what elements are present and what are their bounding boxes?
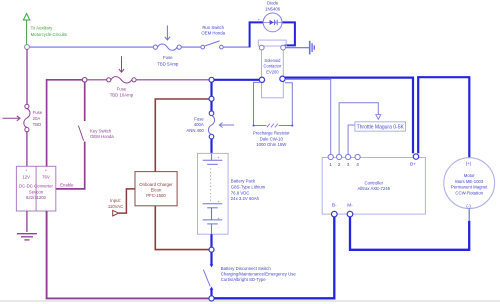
- switch: Run Switch OEM Honda: [201, 41, 223, 49]
- svg-text:TBD 5Amp: TBD 5Amp: [157, 61, 179, 66]
- label: DC-DC Converter Sevcon 622/11202: [19, 174, 53, 200]
- label: Diode 1N5406: [265, 0, 281, 11]
- wire: M- to motor (thick): [350, 217, 469, 250]
- svg-text:B+: B+: [410, 162, 416, 167]
- battery ellipsis dots: [210, 168, 211, 200]
- svg-text:76V: 76V: [42, 174, 50, 179]
- terminal: B+: [413, 154, 418, 159]
- wire: charger negative output: [155, 206, 209, 250]
- node dots: precharge corners: [253, 125, 294, 127]
- wire: coil return to chassis ground: [286, 47, 309, 49]
- svg-text:622/11202: 622/11202: [26, 195, 47, 200]
- switch: Key Switch OEM Honda: [56, 82, 85, 189]
- wire: positive bus contactor to B+ (thick): [285, 78, 413, 154]
- svg-text:400A: 400A: [194, 122, 204, 127]
- wire: charger node to 400A fuse: [210, 101, 212, 111]
- label: Battery Pack G8S-Type Lithium 76.8 VDC 24x 3.2V 60Ah: [231, 178, 266, 201]
- svg-text:M-: M-: [347, 202, 353, 207]
- svg-text:Permanent Magnet: Permanent Magnet: [451, 185, 488, 190]
- svg-text:Fuse: Fuse: [117, 86, 127, 91]
- svg-text:2: 2: [338, 162, 341, 167]
- label: Key Switch OEM Honda: [90, 128, 114, 139]
- label: Motor Mars ME-1003 Permanent Magnet CCW-Rotation: [451, 161, 488, 208]
- wire: controller pin 1 sense: [286, 79, 331, 154]
- svg-text:Dale CW-10: Dale CW-10: [260, 136, 284, 141]
- wire: positive bus to contactor (thick): [214, 79, 259, 81]
- svg-text:ANN 400: ANN 400: [186, 128, 204, 133]
- battery cell 3: [203, 220, 223, 224]
- svg-text:Sevcon: Sevcon: [29, 189, 44, 194]
- svg-text:76.8 VDC: 76.8 VDC: [231, 190, 250, 195]
- wire: 5A fuse to run switch: [181, 46, 201, 48]
- label: Battery Disconnect Switch Charging/Maintenance/Emergency Use Curtis/Albright SD-Type: [221, 266, 297, 282]
- label: Solenoid Contactor EV200: [264, 58, 282, 75]
- wire: controller pin 3 to throttle: [348, 125, 355, 154]
- svg-text:Key Switch: Key Switch: [90, 128, 112, 133]
- label: B- and M-: [332, 202, 353, 207]
- label: Controller Alltrax AXE-7245: [358, 180, 391, 191]
- pointer arrow to 5A fuse: [165, 26, 170, 41]
- fuse F3 TBD 10Amp: [107, 77, 136, 83]
- label: Fuse 20A TBD: [33, 110, 43, 127]
- svg-text:+: +: [218, 156, 220, 160]
- diode D1 1N5406: [263, 13, 282, 32]
- svg-text:OEM Honda: OEM Honda: [90, 134, 114, 139]
- svg-text:Fuse: Fuse: [194, 116, 204, 121]
- svg-text:Motor: Motor: [464, 173, 476, 178]
- svg-text:Fuse: Fuse: [163, 55, 173, 60]
- svg-text:(-): (-): [466, 203, 471, 208]
- terminal: M-: [347, 211, 353, 217]
- wire: precharge resistor right leg: [279, 83, 293, 126]
- label: Onboard Charger Elcon PFC-1500: [139, 182, 173, 198]
- svg-text:Input:: Input:: [110, 198, 121, 203]
- label: battery polarity marks: [218, 156, 221, 230]
- node: 12V distribution junction: [25, 45, 30, 50]
- svg-text:+: +: [45, 169, 47, 173]
- fuse F1 TBD 5Amp: [153, 44, 181, 50]
- wire: 10A fuse to battery positive node: [136, 79, 209, 81]
- battery cell 1: [203, 160, 223, 164]
- wire: diode cathode leg (thick): [282, 22, 295, 45]
- svg-text:1000 Ohm 15W: 1000 Ohm 15W: [256, 142, 287, 147]
- wire: DC-DC 12V negative to ground: [26, 211, 28, 232]
- label: Run Switch OEM Honda: [201, 25, 225, 36]
- ground: coil return: [310, 41, 315, 55]
- svg-text:Onboard Charger: Onboard Charger: [139, 182, 173, 187]
- wire: key circuit from 12V node down: [26, 49, 28, 104]
- label: Input 110VAC: [108, 198, 123, 209]
- label: pin numbers 1 2 3 4: [329, 162, 359, 167]
- svg-text:3: 3: [347, 162, 350, 167]
- battery BT1 pack: [198, 153, 229, 234]
- wire: 76V feed to DC-DC input: [47, 80, 83, 167]
- svg-text:TBD: TBD: [33, 122, 42, 127]
- svg-text:110VAC: 110VAC: [108, 204, 123, 209]
- wire: 12V feed to 5A fuse: [29, 46, 153, 48]
- wire: AC input to charger: [119, 189, 135, 213]
- svg-text:Controller: Controller: [364, 180, 383, 185]
- svg-text:12V: 12V: [22, 174, 30, 179]
- svg-text:Precharge Resistor: Precharge Resistor: [253, 130, 290, 135]
- wire: cell 2 to cell 3: [211, 208, 213, 220]
- label: Fuse 400A ANN 400: [186, 116, 204, 133]
- svg-text:1N5406: 1N5406: [265, 7, 281, 12]
- terminal: B-: [332, 211, 338, 217]
- label: Precharge Resistor Dale CW-10 1000 Ohm 15W: [253, 130, 290, 147]
- label: Fuse TBD 10Amp: [110, 86, 134, 97]
- fuse F4 400A ANN 400: [208, 111, 214, 139]
- svg-text:To Auxiliary: To Auxiliary: [31, 26, 54, 31]
- node: key switch junction: [82, 78, 87, 83]
- svg-text:Solenoid: Solenoid: [264, 58, 281, 63]
- contactor coil terminals: [259, 45, 285, 50]
- wire: DC-DC 76V negative return: [47, 211, 209, 298]
- wire: B- to negative bus (thick): [214, 217, 334, 298]
- svg-text:Charging/Maintenance/Emergency: Charging/Maintenance/Emergency Use: [221, 272, 297, 277]
- wire: 20A fuse to DC-DC 12V input: [26, 132, 28, 167]
- wire: motor negative stub: [468, 209, 470, 222]
- wire: key node to 10A fuse: [87, 79, 107, 81]
- svg-text:+: +: [218, 200, 220, 204]
- svg-text:EV200: EV200: [266, 70, 279, 75]
- net arrow: To Auxiliary Motorcycle Circuits: [23, 14, 29, 45]
- wire: run switch to contactor coil +: [223, 46, 250, 48]
- controller U2 Alltrax AXE-7245: [322, 158, 425, 215]
- ground: DC-DC 12V return: [17, 234, 37, 240]
- wire: diode anode leg (thick): [250, 22, 264, 47]
- svg-text:Contactor: Contactor: [264, 64, 282, 69]
- label: DC-DC polarity marks: [25, 169, 47, 211]
- svg-text:B-: B-: [332, 202, 337, 207]
- svg-text:Curtis/Albright SD-Type: Curtis/Albright SD-Type: [221, 277, 267, 282]
- svg-text:OEM Honda: OEM Honda: [201, 31, 225, 36]
- svg-text:DC-DC Converter: DC-DC Converter: [19, 184, 53, 189]
- svg-text:Battery Disconnect Switch: Battery Disconnect Switch: [221, 266, 272, 271]
- svg-text:Diode: Diode: [267, 0, 279, 5]
- wire: B+ to motor + (thick): [418, 77, 469, 157]
- svg-text:Fuse: Fuse: [33, 110, 43, 115]
- svg-text:+: +: [218, 217, 220, 221]
- contactor main terminals: [259, 76, 285, 82]
- pointer arrow to 10A fuse: [119, 56, 124, 72]
- wire: controller pin 2 to throttle: [339, 103, 378, 155]
- svg-text:Elcon: Elcon: [151, 188, 162, 193]
- pointer arrow to 20A fuse: [3, 116, 21, 121]
- svg-text:Throttle Magura 0-5K: Throttle Magura 0-5K: [357, 124, 405, 130]
- svg-text:Run Switch: Run Switch: [202, 25, 224, 30]
- label: coil polarity marks: [258, 18, 288, 22]
- svg-text:1: 1: [329, 162, 332, 167]
- switch: Battery Disconnect Switch: [203, 252, 213, 296]
- svg-text:4: 4: [356, 162, 359, 167]
- svg-text:TBD 10Amp: TBD 10Amp: [110, 92, 134, 97]
- motor M1 Mars ME-1003: [444, 158, 495, 209]
- svg-text:Mars ME-1003: Mars ME-1003: [455, 179, 484, 184]
- fuse F2 20A TBD: [24, 104, 30, 131]
- svg-text:(+): (+): [466, 161, 472, 166]
- controller pins 1-4 terminals: [328, 154, 360, 159]
- wire: battery negative out: [211, 224, 213, 234]
- label: To Auxiliary Motorcycle Circuits: [31, 26, 67, 37]
- svg-text:Enable: Enable: [60, 182, 74, 187]
- source: Input 110VAC: [113, 210, 119, 216]
- svg-text:24x 3.2V 60Ah: 24x 3.2V 60Ah: [231, 196, 260, 201]
- wire: junction to charger node: [210, 82, 212, 96]
- svg-text:Alltrax AXE-7245: Alltrax AXE-7245: [358, 186, 391, 191]
- node: battery positive / key circuit junction: [209, 77, 214, 82]
- wire: precharge resistor left leg: [254, 82, 267, 125]
- label: Fuse TBD 5Amp: [157, 55, 179, 66]
- throttle: Magura 0-5K: [355, 122, 406, 131]
- DC-DC converter U1 Sevcon 622/11202: [16, 166, 55, 211]
- resistor R1 precharge Dale CW-10: [267, 124, 278, 128]
- charger: Onboard Charger Elcon PFC-1500: [135, 172, 177, 206]
- svg-text:PFC-1500: PFC-1500: [146, 193, 166, 198]
- svg-text:20A: 20A: [33, 116, 41, 121]
- battery cell 2: [203, 204, 223, 208]
- svg-text:+: +: [25, 169, 27, 173]
- node: charger positive junction: [209, 96, 214, 101]
- node: negative bus junction: [209, 296, 214, 301]
- solenoid contactor K1 EV200: [258, 40, 286, 98]
- node: battery negative / charger junction: [209, 247, 214, 252]
- svg-text:Battery Pack: Battery Pack: [231, 178, 256, 183]
- svg-text:CCW-Rotation: CCW-Rotation: [455, 190, 483, 195]
- pointer arrow to 400A fuse: [219, 123, 234, 128]
- wire: charger positive output: [155, 99, 209, 172]
- svg-text:G8S-Type Lithium: G8S-Type Lithium: [231, 184, 266, 189]
- pointer arrow into throttle: [376, 115, 381, 120]
- wire: 400A fuse to battery +: [210, 139, 212, 154]
- svg-text:Motorcycle Circuits: Motorcycle Circuits: [31, 32, 67, 37]
